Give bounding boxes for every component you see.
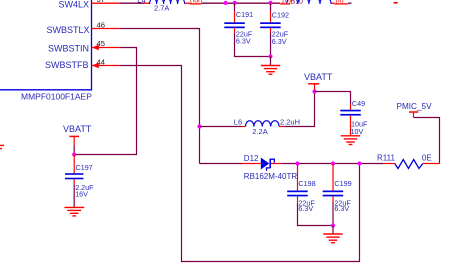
capacitor C192 (260, 3, 289, 56)
ferrite bead B10 (top cut off) (287, 0, 335, 6)
svg-text:L4: L4 (137, 0, 145, 4)
power symbol (cut off) top right (394, 2, 398, 4)
capacitor C49 (340, 99, 368, 136)
svg-text:VBATT: VBATT (304, 72, 333, 82)
svg-text:C199: C199 (334, 179, 351, 188)
svg-text:6.3V: 6.3V (236, 36, 251, 45)
svg-text:C198: C198 (298, 179, 315, 188)
svg-text:C49: C49 (352, 99, 365, 108)
power flag VBATT (left) (63, 124, 92, 155)
svg-text:SWBSTFB: SWBSTFB (45, 60, 89, 70)
node junction dot output/C199 (331, 161, 335, 165)
power symbol (cut off) left edge (0, 145, 4, 146)
svg-text:6.3V: 6.3V (298, 204, 313, 213)
pin SWBSTIN (pin 45) (48, 39, 119, 53)
wire SW4LX to L4 (119, 2, 144, 4)
ground below C199 (332, 226, 334, 234)
IC U1 MMPF0100F1AEP (partial, top-left) (0, 0, 92, 102)
net label (cut off) before B10 (280, 0, 291, 5)
net label (cut off) after B10 (335, 0, 349, 5)
IC MMPF0100F1AEP body edge (0, 0, 92, 90)
svg-text:6.3V: 6.3V (334, 204, 349, 213)
svg-text:R111: R111 (377, 154, 395, 163)
power flag VBATT (right) (304, 72, 333, 92)
svg-text:D12: D12 (244, 154, 259, 163)
inductor L4 2.7A (top cut off) (137, 0, 190, 12)
svg-text:(fu: (fu (336, 0, 344, 5)
svg-text:L6: L6 (234, 118, 242, 127)
pin SW4LX (pin 37) (58, 0, 119, 9)
node junction dot top rail C (C192) (268, 1, 272, 5)
wire SWBSTFB net: pin 44 down, bottom rail, up to output (119, 66, 359, 262)
node junction dot output/C198 (295, 161, 299, 165)
node junction dot C198/C199 ground (331, 223, 335, 227)
svg-text:10V: 10V (351, 127, 364, 136)
diode D12 RB162M-40TR (schottky) (242, 154, 297, 181)
wire top rail to capacitors (201, 2, 280, 4)
node junction dot VBATT/C49 (312, 89, 316, 93)
capacitor C198 (287, 164, 315, 214)
svg-text:6.3V: 6.3V (272, 37, 287, 46)
wire SWBSTIN net: pin 45 to VBATT node (74, 48, 136, 155)
wire L6 to VBATT node (284, 92, 314, 127)
svg-text:0E: 0E (422, 154, 432, 163)
svg-text:10): 10) (281, 0, 291, 5)
wire junction to L6 (200, 126, 243, 128)
pin SWBSTLX (pin 46) (46, 20, 119, 35)
svg-text:MMPF0100F1AEP: MMPF0100F1AEP (21, 92, 92, 102)
capacitor C199 (323, 164, 352, 226)
svg-text:VBATT: VBATT (63, 124, 92, 134)
ground below C197 (64, 207, 84, 216)
wire C198 bottom to C199 bottom (298, 203, 334, 226)
net label (cut off) after L4 (190, 0, 202, 5)
power flag PMIC_5V (397, 102, 433, 118)
wire D12 cathode to output rail (281, 163, 384, 165)
node junction dot C191/C192 ground (268, 54, 272, 58)
svg-text:SWBSTIN: SWBSTIN (48, 43, 89, 53)
capacitor C191 (224, 3, 253, 45)
svg-text:PMIC_5V: PMIC_5V (397, 102, 433, 111)
svg-text:C192: C192 (272, 11, 289, 20)
svg-text:2.7A: 2.7A (154, 3, 169, 12)
wire after label (348, 2, 352, 4)
node junction dot SWBSTLX/L6 (197, 124, 201, 128)
svg-text:SW4LX: SW4LX (58, 0, 89, 9)
ground below C192 (270, 56, 272, 65)
wire R111 to PMIC_5V (414, 118, 440, 164)
pin SWBSTFB (pin 44) (45, 57, 119, 70)
wire SWBSTLX down to D12 anode (200, 163, 243, 165)
capacitor C197 (65, 155, 94, 208)
svg-text:C197: C197 (76, 163, 93, 172)
node junction dot output/feedback (357, 161, 361, 165)
node junction dot top rail B (C191) (233, 1, 237, 5)
wire VBATT to C49 (315, 92, 351, 105)
svg-text:2.2uH: 2.2uH (280, 118, 300, 127)
svg-text:RB162M-40TR: RB162M-40TR (244, 172, 298, 181)
svg-text:C191: C191 (236, 10, 253, 19)
node junction dot top rail A (224, 1, 228, 5)
inductor L6 2.2uH (234, 118, 300, 136)
wire C191 bottom to C192 bottom (235, 33, 271, 57)
wire SWBSTLX net: pin 46 right and down (119, 29, 199, 164)
ground below C49 (341, 136, 360, 145)
svg-text:(fun: (fun (190, 0, 202, 5)
resistor R111 0E (377, 154, 440, 169)
node junction dot VBATT/C197 (72, 152, 76, 156)
svg-text:2.2A: 2.2A (252, 127, 267, 136)
svg-text:SWBSTLX: SWBSTLX (46, 25, 89, 35)
svg-text:16V: 16V (75, 190, 88, 199)
